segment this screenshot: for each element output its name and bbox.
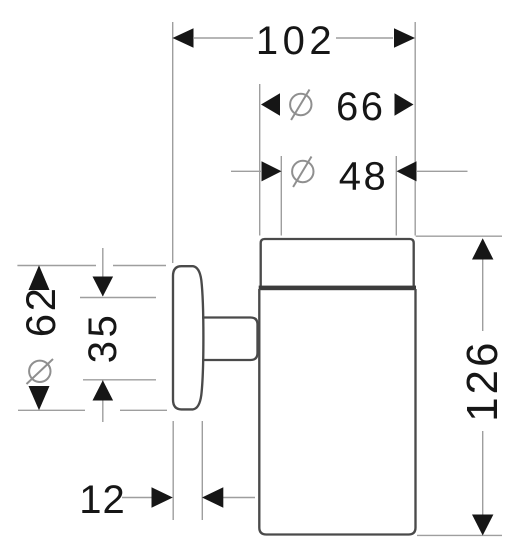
svg-text:48: 48 (339, 154, 389, 198)
extension line 48 right (395, 156, 397, 236)
svg-text:12: 12 (79, 478, 126, 522)
extension line 62 bottom (18, 409, 85, 411)
arrow 102 right (394, 28, 415, 48)
arrow 126 top (472, 238, 493, 259)
diameter symbol 48 (292, 157, 313, 188)
cup rim (261, 239, 414, 287)
arrow 48 right (points left) (397, 161, 417, 181)
extension line 48 left (280, 156, 282, 236)
arrow 48 left (points right) (262, 161, 282, 181)
arrow 12 right (points left) (202, 487, 223, 507)
extension line 102 left (172, 22, 174, 263)
arrow 35 bottom (points up) (93, 380, 114, 400)
extension line 35 top (80, 297, 156, 299)
extension line 126 top (416, 235, 502, 237)
arrow 62 top (29, 265, 50, 290)
dimension line 48 left tail (231, 170, 261, 172)
extension line 35 bottom (83, 379, 156, 381)
extension line 126 bottom (417, 534, 502, 536)
dimension line 12 (122, 497, 152, 499)
dimension line 126 (482, 258, 484, 331)
stem (202, 318, 258, 361)
dimension line 102 (194, 37, 253, 39)
arrow 126 bottom (472, 515, 493, 536)
arrow 102 left (173, 28, 194, 48)
rim/body divider thick band (259, 286, 416, 291)
dimension line 48 right tail (417, 170, 468, 172)
arrow 12 left (points right) (152, 487, 173, 507)
dimension line 35 (102, 248, 104, 296)
svg-text:35: 35 (81, 312, 125, 364)
extension line 66 left (259, 84, 261, 236)
extension line 12 right (201, 421, 203, 520)
extension line 62 top (17, 265, 96, 267)
extension line 12 left (172, 421, 174, 520)
svg-text:62: 62 (17, 286, 64, 338)
svg-text:126: 126 (458, 339, 507, 421)
arrow 62 bottom (29, 386, 50, 410)
cup body (259, 289, 415, 535)
svg-text:66: 66 (336, 85, 386, 129)
arrow 66 left (261, 93, 280, 115)
extension line 102/66 right (414, 22, 416, 236)
arrow 66 right (395, 93, 414, 115)
diameter symbol 66 (290, 90, 311, 121)
svg-text:102: 102 (256, 19, 336, 63)
arrow 35 top (points down) (93, 277, 114, 297)
diameter symbol 62 (left column) (27, 359, 54, 384)
wall plate (173, 266, 203, 409)
